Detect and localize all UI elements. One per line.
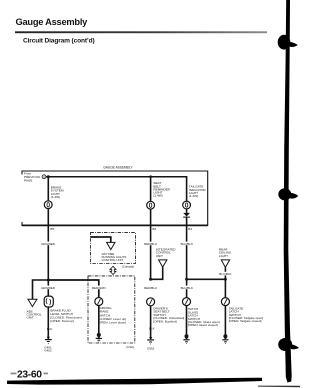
parking brake switch box (dash-dot, USA) [88,276,135,343]
ground name G401 G402 [44,345,52,352]
svg-text:UNIT: UNIT [27,316,34,320]
wire label GRN/RED lower [41,286,56,290]
svg-text:Circuit Diagram (cont’d): Circuit Diagram (cont’d) [23,37,95,44]
arrow to ABS control unit [28,299,37,306]
from previous page label [24,172,40,183]
node: feed junction at B5 branch [47,175,50,178]
BLK label (seat belt) [149,327,155,331]
arrow to integrated control unit [159,260,167,267]
diode below tailgate indicator light [183,209,190,217]
wire label BLU/BLK lower left [180,286,194,290]
brake fluid level switch label [50,309,81,324]
node: junction at tailgate branch [224,278,227,281]
node: feed junction at B6 branch [149,175,152,178]
svg-text:LIGHT: LIGHT [219,254,228,258]
svg-text:GRN/RED: GRN/RED [41,286,56,290]
double arrow between DRL box and USA box [110,266,116,274]
svg-text:[OPEN: Float up]: [OPEN: Float up] [50,319,74,323]
svg-text:BLK: BLK [149,327,155,331]
wire label RED/BLU lower [144,286,158,290]
node: junction on RED/BLU wire [149,278,152,281]
svg-text:GAUGE ASSEMBLY: GAUGE ASSEMBLY [103,165,133,169]
svg-text:BLU/BLK: BLU/BLK [181,286,193,290]
svg-text:(1.4W): (1.4W) [153,194,162,198]
wire: top feed line [46,176,187,178]
wire: below driver's seat belt switch [150,306,152,337]
arrow into DRL control unit [107,242,115,249]
svg-text:G552: G552 [147,346,155,350]
switch: hatch glass latch switch [183,298,191,306]
wire: hatch branch below junction [186,279,188,298]
bulb: brake system light [44,201,52,209]
svg-text:23-60: 23-60 [17,369,42,380]
wire: feed to parking brake switch [48,280,99,298]
tailgate indicator light label [189,185,206,198]
GAUGE ASSEMBLY box label [103,165,133,169]
pin B5 [50,227,54,231]
ground G552 [147,337,154,344]
svg-text:[OPEN: Tailgate closed]: [OPEN: Tailgate closed] [229,319,262,323]
svg-text:(1.4W): (1.4W) [51,195,60,199]
svg-text:RED/BLU: RED/BLU [144,242,157,246]
switch: tailgate latch switch [221,298,229,306]
wire: below brake fluid level switch [47,307,49,337]
wire: feed into DRL control unit [90,237,110,242]
rear ceiling light label [219,247,232,258]
ground at hatch glass latch switch [183,334,189,343]
ground at parking brake switch [96,333,102,342]
wire: junction bar between hatch and tailgate branches [187,278,226,280]
svg-text:[OPEN: Glass closed]: [OPEN: Glass closed] [188,323,218,327]
(USA) label [126,345,134,349]
pin B3 [188,227,192,231]
brake fluid level switch [44,296,53,307]
bottom page-edge bar [7,378,262,385]
ground G401/G402 [45,337,52,344]
brake system light label [51,186,64,199]
svg-text:RED/BLU: RED/BLU [144,286,157,290]
wire: branch 3 lower to pin B3 [186,217,188,279]
ABS control unit label [27,309,42,319]
pin B6 [152,227,156,231]
(Canada) label [122,264,134,268]
svg-text:RED/GRN: RED/GRN [92,286,106,290]
title: Gauge Assembly [16,17,89,27]
node: junction on GRN/RED wire [47,279,50,282]
tailgate latch switch label [229,306,264,323]
switch: parking brake switch [95,298,103,306]
bulb: seat belt reminder light [147,201,155,209]
seat belt reminder light label [153,181,170,197]
parking brake switch label [98,306,126,324]
wire: branch 1 upper [47,177,49,201]
svg-text:(Canada): (Canada) [122,264,134,268]
hatch glass latch switch label [188,307,220,327]
wire: branch 2 lower to pin B6 [150,209,152,279]
svg-text:CONTROL UNIT: CONTROL UNIT [102,258,124,262]
title rule [15,31,267,33]
DRL control unit label [102,252,127,262]
page edge line bottom right [258,386,300,388]
svg-text:BLK: BLK [47,327,53,331]
wire: branch 1 lower to pin B5 [47,209,49,297]
integrated control unit label [156,247,176,258]
binding ring 1 [278,35,298,50]
switch: driver's seat belt switch [147,298,155,306]
svg-text:PAGE: PAGE [24,179,32,183]
gauge assembly box bottom edge (heavier) [22,224,208,226]
wire label BLU/BLK upper [180,242,194,246]
svg-text:[OPEN: Lever down]: [OPEN: Lever down] [98,321,126,325]
daytime running lights control unit box (dash-dot) [90,233,135,264]
arrow to rear ceiling light [221,260,230,268]
svg-text:B3: B3 [188,227,192,231]
svg-text:B6: B6 [152,227,156,231]
svg-text:B5: B5 [50,227,54,231]
node: junction on BLU/BLK wire [185,278,188,281]
binding ring 2 [278,188,298,200]
connector A from previous page [42,175,46,179]
svg-text:BLU/BLK: BLU/BLK [219,272,231,276]
BLK label (left) [47,327,53,331]
wire: below parking brake switch [98,305,100,335]
svg-text:G402: G402 [44,349,52,353]
svg-text:[OPEN: Buckled]: [OPEN: Buckled] [153,320,176,324]
svg-text:UNIT: UNIT [156,254,163,258]
subtitle: Circuit Diagram (cont'd) [23,37,95,44]
svg-text:(USA): (USA) [126,345,134,349]
ground at tailgate latch switch [222,334,228,343]
gauge assembly box [22,171,208,226]
ground name G552 [147,346,155,350]
wire: branch 2 upper [150,177,152,202]
wire label BLU/BLK (rear ceiling) [218,272,232,276]
svg-text:Gauge Assembly: Gauge Assembly [16,17,89,27]
bulb: tailgate indicator light [183,201,191,209]
wire label RED/BLU upper [144,242,158,246]
wire: branch to integrated control unit [151,267,163,279]
svg-text:(1.4W): (1.4W) [189,194,198,198]
wire label RED/GRN [92,286,106,290]
binding ring 3 [278,338,299,351]
svg-text:BLU/BLK: BLU/BLK [181,242,193,246]
wire: ABS branch [33,280,49,299]
wire: below hatch glass latch switch [186,305,188,336]
wire: tailgate branch below junction [224,279,226,298]
spiral binding rod [284,0,292,383]
svg-text:A: A [43,175,45,179]
wire: below tailgate latch switch [224,305,226,336]
page number 23-60 [11,369,49,380]
wire label GRN/RED upper [41,242,56,246]
wire: branch 3 upper [186,176,188,201]
svg-text:GRN/RED: GRN/RED [41,242,56,246]
driver's seat belt switch label [153,306,184,323]
wire: rear ceiling light drop [224,267,226,279]
